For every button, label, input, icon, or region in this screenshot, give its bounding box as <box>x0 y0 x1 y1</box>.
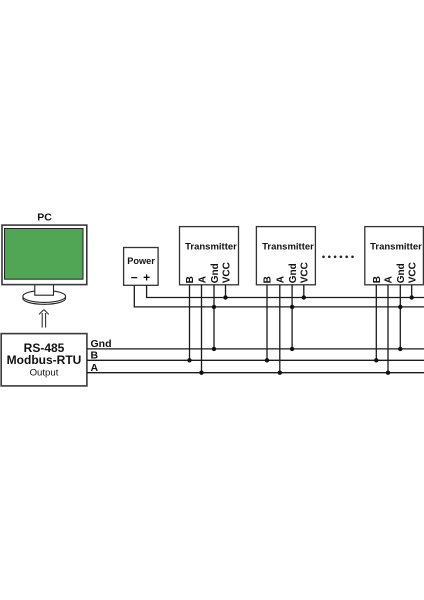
svg-text:Transmitter: Transmitter <box>262 242 314 253</box>
svg-text:Gnd: Gnd <box>91 338 112 350</box>
svg-text:B: B <box>372 276 383 283</box>
svg-text:Gnd: Gnd <box>288 263 299 283</box>
svg-text:VCC: VCC <box>407 262 418 283</box>
svg-text:A: A <box>384 276 395 283</box>
svg-text:B: B <box>185 276 196 283</box>
svg-text:Gnd: Gnd <box>396 263 407 283</box>
svg-text:Transmitter: Transmitter <box>185 242 237 253</box>
svg-text:A: A <box>197 276 208 283</box>
svg-text:A: A <box>91 362 99 374</box>
svg-text:PC: PC <box>37 212 52 224</box>
svg-text:VCC: VCC <box>221 262 232 283</box>
svg-text:+: + <box>143 270 150 284</box>
svg-text:B: B <box>91 349 99 361</box>
svg-text:Gnd: Gnd <box>210 263 221 283</box>
svg-text:Transmitter: Transmitter <box>370 242 422 253</box>
svg-text:A: A <box>276 276 287 283</box>
svg-text:VCC: VCC <box>300 262 311 283</box>
svg-text:B: B <box>263 276 274 283</box>
svg-text:Modbus-RTU: Modbus-RTU <box>7 353 82 367</box>
svg-text:Output: Output <box>30 368 59 379</box>
svg-text:Power: Power <box>127 256 155 266</box>
svg-text:−: − <box>131 270 138 284</box>
